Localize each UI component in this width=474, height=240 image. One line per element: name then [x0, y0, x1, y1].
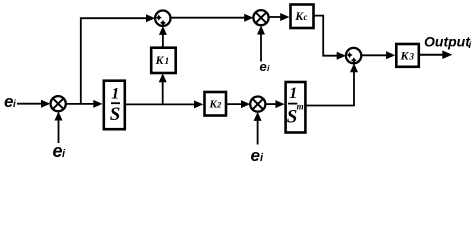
wire K2 to multiplier X2 with arrowhead — [226, 100, 250, 108]
svg-text:1: 1 — [111, 86, 119, 103]
summer S2 (circle with two plus signs) — [346, 48, 361, 63]
multiplier X2 (circle with X) — [250, 97, 265, 112]
wire e_i up into X3 with arrowhead — [257, 26, 265, 62]
gain block Kc — [291, 5, 314, 29]
wire e_i to multiplier X1 with arrowhead — [17, 100, 50, 108]
wire 1/S^m right-up into summer S2 with arrowhead — [305, 63, 358, 105]
svg-text:1: 1 — [165, 57, 170, 67]
label e_i (below X1) — [53, 141, 67, 161]
multiplier X3 (circle with X, top row) — [253, 10, 268, 25]
wire X1 to integrator 1/S with branch node at x=80.8 and arrowhead — [66, 100, 103, 108]
svg-text:e: e — [53, 141, 63, 161]
svg-text:i: i — [13, 99, 16, 110]
wire Kc right-down-right into summer S2 with arrowhead — [314, 16, 346, 60]
gain block K3 — [396, 44, 419, 67]
svg-text:S: S — [110, 104, 121, 125]
wire X3 to gain Kc with arrowhead — [269, 13, 290, 21]
svg-text:e: e — [251, 146, 260, 165]
multiplier X1 (circle with X) — [51, 96, 66, 111]
svg-text:K: K — [155, 53, 165, 67]
integrator block 1/S^m — [286, 82, 306, 133]
wire X2 to block 1/S^m with arrowhead — [265, 100, 284, 108]
svg-text:c: c — [304, 12, 308, 22]
integrator block 1/S — [104, 81, 125, 130]
gain block K2 — [205, 92, 227, 116]
svg-text:i: i — [469, 40, 472, 51]
label e_i (below X3, small) — [260, 59, 271, 74]
svg-text:2: 2 — [216, 100, 222, 110]
label e_i (below X2) — [251, 146, 265, 165]
svg-text:1: 1 — [289, 85, 297, 102]
wire e_i up into X2 with arrowhead — [254, 112, 262, 145]
wire K1 up into summer S1 with arrowhead — [159, 26, 167, 48]
output wire with arrowhead — [419, 50, 452, 59]
gain block K1 — [151, 48, 176, 73]
wire summer S1 to multiplier X3 with arrowhead — [171, 14, 254, 22]
wire 1/S to gain K2 with branch node at x=162.5 and arrowhead — [126, 100, 203, 108]
wire summer S2 to gain K3 with arrowhead — [361, 51, 395, 59]
summer S1 (circle with two plus signs) — [155, 11, 170, 26]
svg-text:K: K — [400, 49, 410, 63]
svg-text:Output: Output — [424, 34, 471, 50]
wire feedforward: branch up from node, across top to summer S1 with arrowhead — [81, 14, 155, 104]
wire e_i up into X1 with arrowhead — [55, 112, 63, 144]
input label e_i (left) — [4, 92, 16, 111]
svg-text:m: m — [297, 101, 304, 111]
output label Output_i — [424, 34, 472, 52]
wire branch up into gain K1 with arrowhead — [159, 73, 167, 104]
svg-text:3: 3 — [409, 52, 415, 62]
